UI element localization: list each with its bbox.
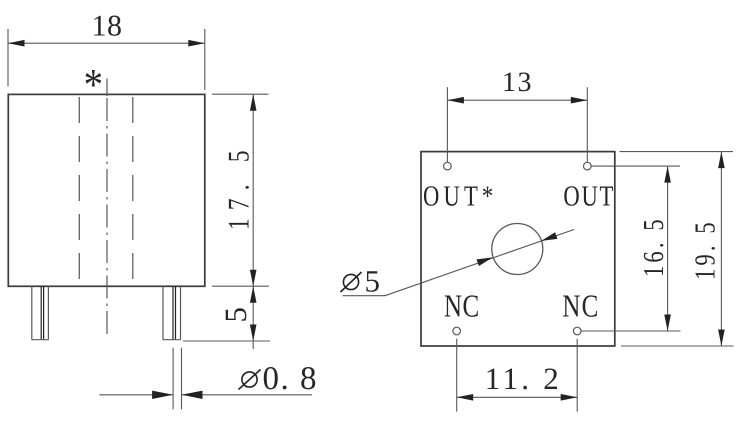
dimension 0.8 : dimension line right bbox=[182, 394, 313, 396]
leader 5 dia : underline segment bbox=[343, 295, 386, 297]
svg-text:5: 5 bbox=[218, 307, 253, 323]
svg-text:0. 8: 0. 8 bbox=[263, 361, 317, 397]
svg-text:16. 5: 16. 5 bbox=[638, 219, 670, 277]
svg-text:OUT*: OUT* bbox=[423, 180, 493, 212]
dimension 0.8 : extension lines bbox=[172, 348, 174, 410]
leader 5 dia : diameter symbol bbox=[341, 272, 362, 292]
dimension 17.5 : arrows bbox=[250, 94, 257, 111]
centerline (dash-dot) bbox=[106, 98, 108, 338]
leader 5 dia : arrow at lower-left circle edge bbox=[477, 257, 493, 266]
left pin inner edge pair bbox=[41, 286, 43, 339]
dimension 17.5/5 : dimension line bbox=[252, 94, 254, 349]
dimension 17.5 : extension lines bbox=[212, 93, 269, 95]
dimension 11.2 : arrows bbox=[457, 394, 474, 401]
dimension 13 : arrows bbox=[447, 97, 464, 104]
dimension 16.5 : extension lines bbox=[591, 165, 680, 167]
svg-text:OUT: OUT bbox=[563, 180, 613, 212]
dimension 19.5 : dimension line bbox=[720, 152, 722, 346]
dimension 11.2 : extension lines bbox=[456, 339, 458, 412]
centerline solid tail above body bbox=[106, 79, 108, 96]
svg-text:19. 5: 19. 5 bbox=[690, 222, 722, 280]
svg-text:11. 2: 11. 2 bbox=[485, 361, 559, 396]
right pin inner edge pair bbox=[173, 286, 176, 339]
pin hole NC left bbox=[453, 327, 461, 335]
pin hole OUT bbox=[584, 162, 592, 170]
dimension 16.5 : dimension line bbox=[667, 166, 669, 331]
dimension 0.8 : diameter symbol bbox=[239, 370, 261, 390]
dimension 18 : dimension line bbox=[8, 42, 205, 44]
hidden hole line left (dashed) bbox=[78, 97, 80, 284]
svg-text:NC: NC bbox=[444, 288, 479, 324]
svg-text:5: 5 bbox=[365, 264, 381, 299]
svg-text:NC: NC bbox=[562, 288, 598, 324]
svg-text:13: 13 bbox=[502, 67, 533, 98]
right pin bbox=[163, 286, 181, 339]
dimension 19.5 : extension lines bbox=[620, 151, 734, 153]
dimension 18 : arrows bbox=[8, 40, 25, 47]
dimension 0.8 : arrows bbox=[152, 391, 173, 399]
pin hole NC right bbox=[573, 327, 581, 335]
svg-text:*: * bbox=[84, 59, 103, 109]
dimension 18 : extension lines bbox=[7, 29, 9, 86]
dimension 13 : dimension line bbox=[447, 99, 587, 101]
dimension 0.8 : dimension line left bbox=[99, 394, 173, 396]
hidden hole line right (dashed) bbox=[132, 97, 134, 284]
dimension 11.2 : dimension line bbox=[457, 396, 578, 398]
left pin bbox=[32, 286, 49, 339]
dimension 19.5 : arrows bbox=[718, 152, 725, 169]
leader 5 dia : diagonal line bbox=[385, 230, 574, 296]
transformer body outline bbox=[8, 94, 205, 286]
dimension 5 : arrows bbox=[250, 286, 257, 303]
svg-text:18: 18 bbox=[92, 9, 123, 42]
dimension 13 : extension lines bbox=[446, 87, 448, 162]
pin hole OUT* bbox=[444, 162, 452, 170]
dimension 5 : bottom extension line bbox=[183, 340, 270, 342]
package square outline bbox=[421, 152, 615, 346]
leader 5 dia : arrow at upper-right circle edge bbox=[541, 232, 557, 241]
dimension 16.5 : arrows bbox=[664, 166, 671, 183]
center hole circle bbox=[492, 224, 543, 275]
